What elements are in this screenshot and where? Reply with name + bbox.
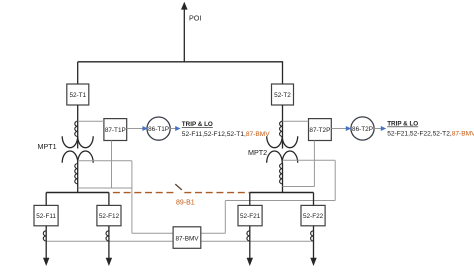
svg-text:52-F12: 52-F12 — [99, 213, 120, 220]
wire 86-T1P to trip note — [170, 128, 176, 130]
svg-text:MPT2: MPT2 — [248, 148, 267, 157]
CT coil feeder F11 — [43, 231, 46, 241]
breaker 52-F21 — [238, 205, 262, 225]
wire 87-T2P to 86-T2P — [331, 128, 346, 130]
CT wire 87-T2P bottom drop — [313, 141, 315, 187]
svg-text:52-F21,52-F22,52-T2,87-BMV: 52-F21,52-F22,52-T2,87-BMV — [387, 131, 474, 138]
svg-text:52-F22: 52-F22 — [303, 213, 324, 220]
wire MPT1 secondary to bus — [77, 163, 79, 193]
CT coil MPT2 LV — [280, 164, 283, 184]
bus left LV — [46, 192, 109, 194]
wire drop bus to 52-F12 — [108, 193, 110, 206]
relay 87-T2P — [309, 119, 332, 141]
wire top bus from T1 to T2 — [78, 61, 283, 63]
CT wire MPT2 HV to 87-T2P — [283, 120, 309, 122]
arrowhead feeder F22 — [310, 258, 316, 266]
CT coil MPT1 LV — [75, 164, 78, 184]
breaker 52-F11 — [34, 205, 58, 225]
CT wire MPT2 LV top tap — [283, 159, 336, 161]
trip note left — [182, 121, 270, 138]
CT coil MPT2 HV — [280, 121, 283, 136]
lockout relay 86-T2P — [351, 117, 374, 140]
breaker 52-T1 — [67, 84, 89, 105]
relay 87-T1P — [104, 119, 127, 141]
CT wire right vertical to BMV level — [224, 201, 226, 234]
wire drop bus to 52-F21 — [249, 193, 251, 206]
wire 86-T2P to trip note — [374, 128, 381, 130]
CT wire right outer vertical — [334, 160, 336, 200]
transformer MPT1 primary winding — [62, 136, 93, 147]
wire drop bus to 52-F22 — [313, 193, 315, 206]
wire 52-F11 feeder down — [45, 226, 47, 259]
svg-text:TRIP & LO: TRIP & LO — [387, 121, 418, 128]
CT wire MPT1 LV bottom tap — [78, 187, 132, 189]
CT wire MPT1 LV top tap — [78, 160, 132, 162]
CT wire into 87-BMV left upper — [132, 232, 173, 234]
svg-text:52-F11: 52-F11 — [36, 213, 56, 220]
transformer MPT1 secondary winding — [62, 151, 93, 163]
CT coil feeder F22 — [311, 231, 314, 241]
CT wire right horizontal at 200 — [225, 200, 335, 202]
CT wire into 87-BMV right upper — [201, 232, 226, 234]
svg-text:52-T1: 52-T1 — [69, 92, 86, 99]
transformer MPT2 secondary winding — [267, 151, 298, 163]
CT coil feeder F21 — [247, 231, 250, 241]
arrowhead feeder F11 — [43, 258, 49, 266]
switch blade 89-B1 — [175, 184, 182, 190]
breaker 52-F22 — [301, 205, 325, 225]
transformer MPT2 primary winding — [267, 136, 298, 147]
tie dashed 89-B1 left span — [109, 192, 173, 194]
arrow to right trip note — [381, 126, 386, 131]
wire 52-F22 feeder down — [313, 226, 315, 259]
arrowhead feeder F21 — [247, 258, 253, 266]
wire MPT2 secondary to bus — [282, 163, 284, 193]
tie dashed 89-B1 right span — [184, 192, 250, 194]
wire POI riser — [183, 9, 185, 63]
CT coil MPT1 HV — [75, 121, 78, 136]
svg-text:87-BMV: 87-BMV — [175, 235, 199, 242]
arrow into 86-T1P — [142, 126, 147, 131]
CT wire 87-T1P bottom drop — [111, 141, 113, 189]
arrow to left trip note — [175, 126, 180, 131]
wire drop to 52-T1 — [77, 62, 79, 84]
svg-text:52-F21: 52-F21 — [240, 213, 261, 220]
arrowhead feeder F12 — [106, 258, 112, 266]
wire drop bus to 52-F11 — [45, 193, 47, 206]
svg-text:52-F11,52-F12,52-T1,87-BMV: 52-F11,52-F12,52-T1,87-BMV — [182, 131, 270, 138]
breaker 52-F12 — [97, 205, 121, 225]
svg-text:87-T1P: 87-T1P — [105, 127, 126, 134]
wire 87-T1P to 86-T1P — [127, 128, 143, 130]
wire 52-T1 to MPT1 — [77, 105, 79, 149]
wire 52-T2 to MPT2 — [282, 105, 284, 149]
svg-text:86-T1P: 86-T1P — [148, 126, 169, 133]
CT wire feeder line into 87-BMV right lower — [201, 240, 313, 242]
trip note right — [387, 121, 474, 138]
svg-text:52-T2: 52-T2 — [274, 92, 291, 99]
lockout relay 86-T1P — [147, 117, 170, 140]
svg-text:TRIP & LO: TRIP & LO — [182, 121, 213, 128]
bus right LV — [250, 192, 314, 194]
svg-text:89-B1: 89-B1 — [176, 200, 195, 207]
CT wire left outer vertical to 87-BMV — [131, 161, 133, 234]
wire 52-F12 feeder down — [108, 226, 110, 259]
CT wire MPT1 HV to 87-T1P — [78, 120, 104, 122]
breaker 52-T2 — [272, 84, 294, 105]
arrow into 86-T2P — [346, 126, 351, 131]
svg-text:86-T2P: 86-T2P — [352, 126, 373, 133]
POI arrowhead — [181, 2, 188, 10]
CT coil feeder F12 — [106, 231, 109, 241]
svg-text:MPT1: MPT1 — [38, 142, 57, 151]
relay 87-BMV — [173, 227, 201, 249]
CT wire MPT2 LV bottom tap — [283, 186, 315, 188]
svg-text:87-T2P: 87-T2P — [309, 127, 330, 134]
wire 52-F21 feeder down — [249, 226, 251, 259]
CT wire feeder line into 87-BMV left lower — [46, 240, 173, 242]
wire drop to 52-T2 — [282, 62, 284, 84]
svg-text:POI: POI — [189, 14, 201, 23]
